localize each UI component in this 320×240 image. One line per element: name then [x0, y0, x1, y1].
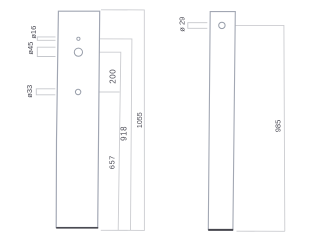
svg-text:1055: 1055	[136, 112, 144, 128]
svg-text:200: 200	[108, 69, 117, 84]
svg-text:ø45: ø45	[26, 42, 35, 55]
svg-text:657: 657	[108, 155, 117, 169]
svg-text:ø 29: ø 29	[178, 17, 187, 32]
svg-text:ø16: ø16	[29, 26, 38, 39]
svg-text:918: 918	[120, 126, 129, 141]
svg-text:985: 985	[274, 120, 283, 133]
svg-text:ø33: ø33	[25, 85, 34, 98]
